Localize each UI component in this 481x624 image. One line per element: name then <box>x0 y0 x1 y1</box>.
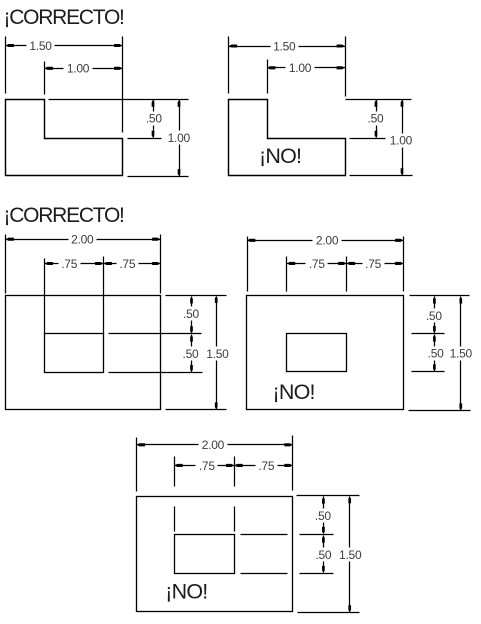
svg-text:¡NO!: ¡NO! <box>165 579 207 603</box>
svg-text:.75: .75 <box>119 257 136 271</box>
figure 5 broken extension line hole bottom outside view <box>300 573 334 575</box>
figure 4 inner rectangle hole <box>287 334 347 372</box>
figure 4 label NO inside view <box>273 380 315 404</box>
svg-text:.50: .50 <box>368 111 385 125</box>
figure 3 extension line hole left crossing view <box>44 259 46 334</box>
figure 2 dimension 1.00 horizontal <box>267 61 345 75</box>
figure 5 broken extension line hole bottom inside view <box>241 573 288 575</box>
figure 3 extension line bottom right for 1.50 <box>166 409 227 411</box>
figure 5 broken extension line hole left inside view <box>174 507 176 532</box>
svg-text:.50: .50 <box>315 548 332 562</box>
figure 2 L-shaped part outline <box>229 100 346 176</box>
figure 5 dimension 2.00 horizontal <box>137 438 293 452</box>
svg-text:2.00: 2.00 <box>71 233 94 247</box>
figure 1 extension line bottom for 1.00 <box>128 176 189 178</box>
svg-text:.50: .50 <box>315 509 332 523</box>
figure 1 dimension 1.00 horizontal <box>45 62 123 76</box>
figure 5 dimension .75 left horizontal <box>175 459 235 473</box>
svg-text:¡CORRECTO!: ¡CORRECTO! <box>4 6 124 29</box>
figure 3 extension line hole bottom crossing view <box>109 372 203 374</box>
figure 3 dimension 2.00 horizontal <box>6 233 161 247</box>
figure 5 broken extension line hole right above view <box>234 457 236 487</box>
svg-text:.50: .50 <box>428 346 445 360</box>
svg-text:¡NO!: ¡NO! <box>273 380 315 404</box>
figure 2 extension line notch for .50 <box>350 138 386 140</box>
figure 5 broken extension line hole left above view <box>174 457 176 487</box>
figure 3 extension line right for 2.00 <box>160 235 162 294</box>
figure 3 extension line hole top crossing view <box>109 333 202 335</box>
figure 4 floating extension line mid lower right <box>412 371 445 373</box>
svg-text:.75: .75 <box>61 257 78 271</box>
svg-text:2.00: 2.00 <box>316 234 339 248</box>
figure 4 short extension line hole left <box>286 257 288 292</box>
figure 3 extension line left for 2.00 <box>5 235 7 294</box>
svg-text:¡CORRECTO!: ¡CORRECTO! <box>4 204 124 227</box>
figure 5 floating extension line top right <box>297 495 360 497</box>
figure 3 dimension .75 left horizontal <box>45 257 104 271</box>
figure 1 extension line right for 1.50 and 1.00 <box>122 37 124 133</box>
figure 5 outer rectangle part outline <box>137 497 293 612</box>
svg-text:1.50: 1.50 <box>273 39 296 53</box>
svg-text:1.50: 1.50 <box>206 347 229 361</box>
figure 5 dimension 1.50 vertical <box>339 497 362 613</box>
figure 1 dimension 1.00 vertical <box>168 100 191 177</box>
svg-text:1.00: 1.00 <box>289 61 312 75</box>
svg-text:.50: .50 <box>183 307 200 321</box>
figure 2 dimension 1.50 horizontal <box>229 39 346 53</box>
figure 2 extension line right for 1.50 <box>345 37 347 97</box>
figure 4 dimension .75 left horizontal <box>287 257 347 271</box>
figure 3 dimension .50 lower vertical <box>183 335 200 373</box>
figure 3 dimension .50 upper vertical <box>183 297 200 334</box>
svg-text:.75: .75 <box>199 459 216 473</box>
figure 3 inner rectangle hole <box>45 334 104 373</box>
figure 1 title CORRECTO <box>4 6 124 29</box>
figure 1 extension line top surface for vertical dims <box>49 99 189 101</box>
figure 1 L-shaped part outline <box>6 100 123 176</box>
figure 4 short extension line hole right <box>346 257 348 292</box>
figure 2 label NO inside view <box>259 144 301 168</box>
figure 4 dimension 2.00 horizontal <box>247 234 403 248</box>
figure 2 extension line step for 1.00 <box>267 60 269 94</box>
figure 3 title CORRECTO <box>4 204 124 227</box>
figure 5 dimension .75 right horizontal <box>235 459 293 473</box>
figure 1 extension line step for 1.00 <box>44 62 46 95</box>
figure 2 extension line bottom for 1.00 <box>350 175 413 177</box>
figure 5 label NO inside view <box>165 579 207 603</box>
figure 1 extension line left for 1.50 <box>5 37 7 94</box>
figure 1 dimension 1.50 horizontal <box>6 39 123 53</box>
figure 3 extension line hole right crossing view <box>103 257 105 334</box>
svg-text:2.00: 2.00 <box>202 438 225 452</box>
figure 4 extension line right for 2.00 <box>403 237 405 292</box>
figure 3 dimension .75 right horizontal <box>104 257 161 271</box>
svg-text:.50: .50 <box>146 111 163 125</box>
svg-text:.75: .75 <box>365 257 382 271</box>
figure 4 outer rectangle part outline <box>247 296 404 410</box>
figure 5 extension line left for 2.00 <box>136 438 138 492</box>
figure 5 inner rectangle hole <box>175 535 235 574</box>
figure 1 extension line notch bottom for .50 <box>128 138 162 140</box>
figure 3 outer rectangle part outline <box>6 296 161 410</box>
figure 5 broken extension line hole top outside view <box>300 534 334 536</box>
svg-text:1.50: 1.50 <box>450 346 473 360</box>
svg-text:1.50: 1.50 <box>29 39 52 53</box>
svg-text:¡NO!: ¡NO! <box>259 144 301 168</box>
svg-text:.75: .75 <box>258 459 275 473</box>
figure 4 floating extension line bottom right <box>409 410 471 412</box>
svg-text:.75: .75 <box>309 257 326 271</box>
svg-text:.50: .50 <box>183 347 200 361</box>
figure 4 floating extension line top right <box>410 295 470 297</box>
figure 2 extension line left for 1.50 <box>228 37 230 94</box>
figure 5 broken extension line hole top inside view <box>241 534 288 536</box>
svg-text:1.00: 1.00 <box>67 62 90 76</box>
figure 4 floating extension line mid upper right <box>412 333 445 335</box>
figure 1 dimension .50 vertical <box>146 100 163 138</box>
figure 5 dimension .50 lower vertical <box>315 536 332 573</box>
figure 4 dimension .75 right horizontal <box>347 257 404 271</box>
svg-text:1.00: 1.00 <box>390 134 413 148</box>
figure 2 dimension 1.00 vertical <box>390 100 413 176</box>
svg-text:1.50: 1.50 <box>339 548 362 562</box>
figure 4 dimension .50 upper vertical <box>426 297 443 334</box>
figure 4 extension line left for 2.00 <box>247 237 249 292</box>
figure 4 dimension 1.50 vertical <box>450 297 473 411</box>
figure 4 dimension .50 lower vertical <box>428 335 445 372</box>
svg-text:.50: .50 <box>426 309 443 323</box>
figure 3 dimension 1.50 vertical <box>206 296 229 409</box>
svg-text:1.00: 1.00 <box>168 131 191 145</box>
figure 2 dimension .50 vertical <box>368 100 385 138</box>
figure 5 extension line right for 2.00 <box>292 436 294 491</box>
figure 5 broken extension line hole right inside view <box>234 507 236 532</box>
figure 5 floating extension line bottom right <box>298 612 360 614</box>
figure 5 dimension .50 upper vertical <box>315 497 332 534</box>
figure 2 floating extension line top for vertical dims <box>346 99 412 101</box>
figure 3 extension line top right for .50 and 1.50 <box>166 295 227 297</box>
